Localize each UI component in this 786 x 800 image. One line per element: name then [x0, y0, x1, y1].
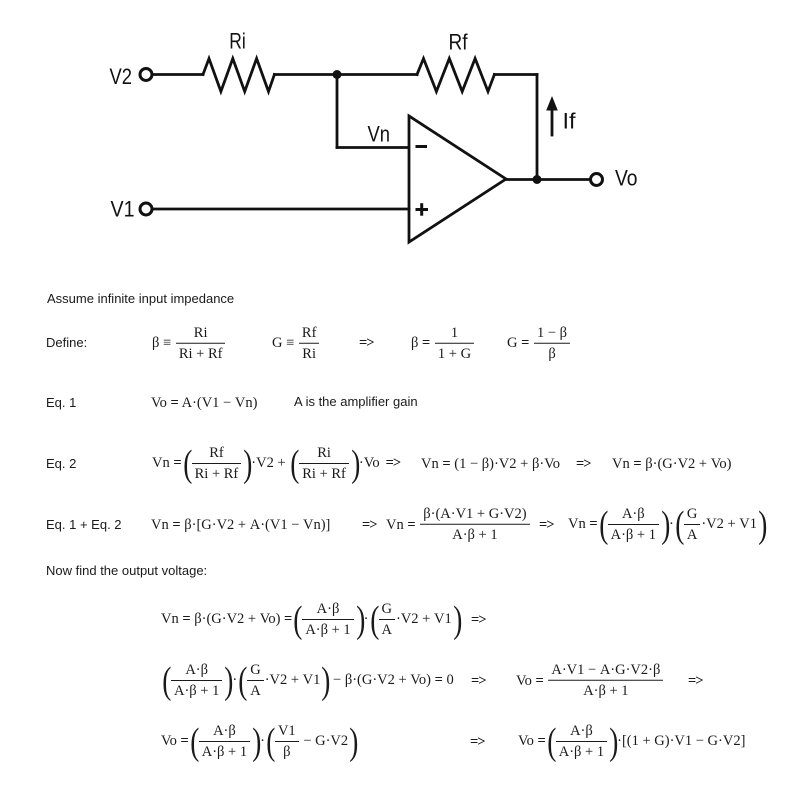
plus sign [416, 203, 429, 216]
implies arrow [686, 673, 705, 688]
implies arrow [469, 612, 488, 627]
terminal V1 [140, 203, 152, 215]
combined equation [151, 517, 330, 532]
equation G definition [272, 326, 320, 361]
combined solved for Vn [386, 507, 531, 542]
arrowhead If [546, 96, 558, 111]
wire to minus input [337, 146, 409, 149]
Vn closed form [568, 506, 766, 544]
op-amp U1 [409, 116, 506, 242]
equation 2 final [612, 456, 731, 471]
wire output [506, 178, 590, 181]
wire V2 to Ri [153, 73, 204, 76]
wire node down [336, 75, 339, 148]
svg-text:Vo: Vo [615, 166, 638, 191]
svg-text:V1: V1 [111, 197, 135, 222]
svg-text:If: If [563, 109, 577, 134]
circuit schematic [0, 0, 786, 275]
current arrow If [551, 108, 554, 135]
equation 1 [151, 396, 257, 411]
resistor Ri [203, 59, 274, 92]
svg-text:V2: V2 [110, 64, 133, 89]
label now find output [46, 563, 207, 578]
wire feedback down [536, 75, 539, 180]
note: assume infinite input impedance [47, 291, 234, 306]
implies arrow [537, 517, 556, 532]
derivation row A [161, 601, 461, 639]
junction output node [533, 175, 542, 184]
equation 2 full [152, 445, 402, 483]
wire V1 to plus input [153, 208, 410, 211]
junction node Vn [333, 70, 342, 79]
equation beta result [411, 326, 475, 361]
svg-text:Ri: Ri [229, 29, 246, 54]
implies arrow [469, 673, 488, 688]
terminal Vo [591, 174, 603, 186]
derivation row B left [161, 662, 454, 700]
derivation row C right [518, 723, 745, 761]
minus sign [416, 145, 428, 148]
terminal V2 [140, 69, 152, 81]
svg-text:Vn: Vn [368, 122, 391, 147]
label Define [46, 335, 87, 350]
wire Ri to node Vn-top [274, 73, 337, 76]
implies arrow [357, 336, 376, 351]
equation 2 simplified [421, 456, 560, 471]
svg-text:Rf: Rf [449, 30, 469, 55]
implies arrow [574, 456, 593, 471]
implies arrow [468, 734, 487, 749]
wire Rf right lead [494, 73, 537, 76]
wire Rf left lead [337, 73, 417, 76]
derivation row B right [516, 663, 664, 698]
equation G result [507, 326, 571, 361]
resistor Rf [417, 59, 494, 92]
derivation row C left [161, 723, 357, 761]
note amplifier gain [294, 394, 418, 409]
label Eq. 1 [46, 395, 76, 410]
label Eq. 1 + Eq. 2 [46, 517, 122, 532]
equation beta definition [152, 326, 226, 361]
implies arrow [360, 517, 379, 532]
label Eq. 2 [46, 456, 76, 471]
